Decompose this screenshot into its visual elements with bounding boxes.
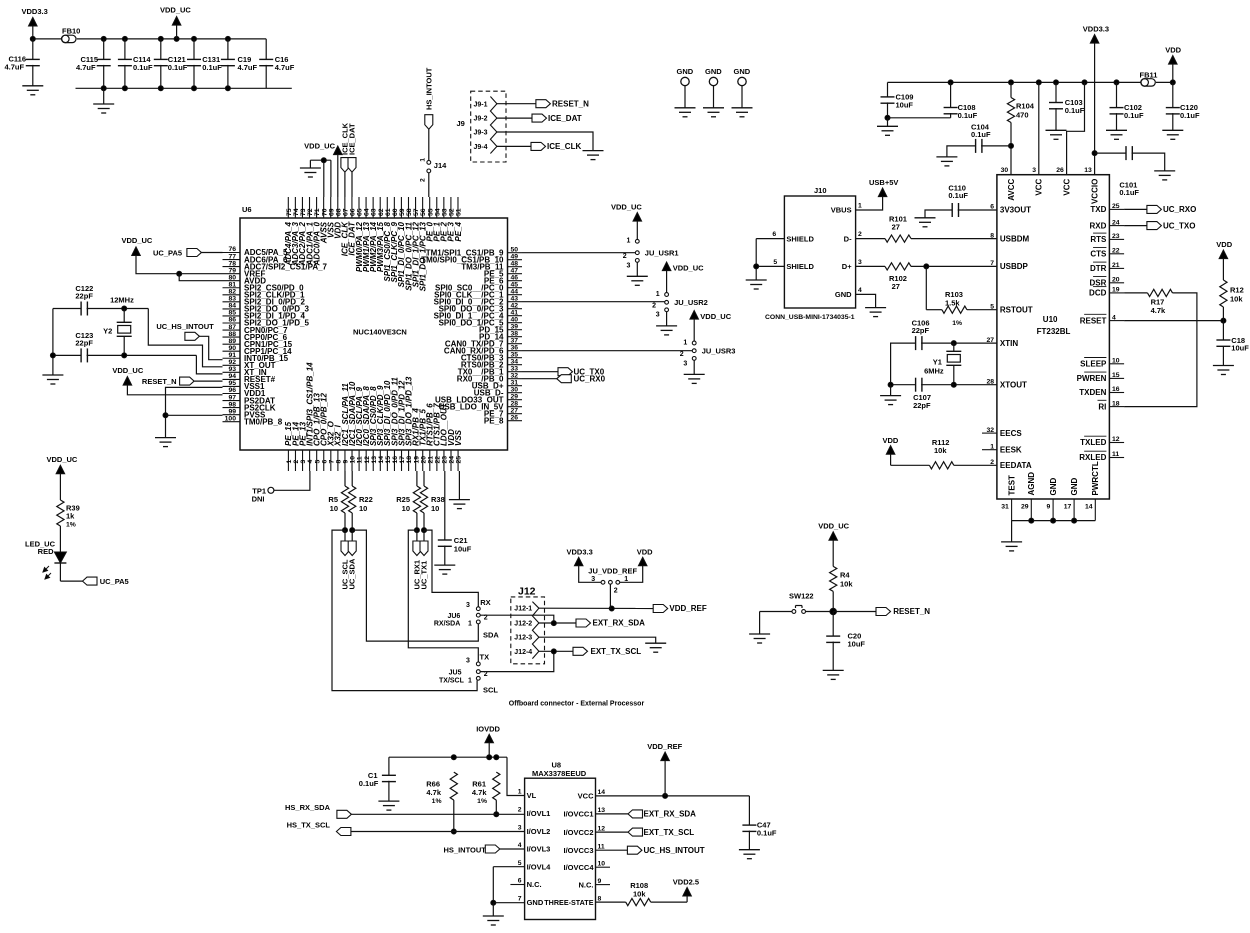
ground at J9-3 [583,151,604,160]
net tag UC_RX0 [557,374,606,383]
U8 pin 13 I/OVCC1 [563,807,605,819]
svg-text:10k: 10k [840,580,853,589]
svg-text:3: 3 [683,360,687,367]
svg-text:27: 27 [511,407,519,414]
J10 pin6 SHIELD [756,231,814,243]
svg-text:8: 8 [598,895,602,902]
U10 pin 23 RTS [1090,233,1124,244]
svg-text:HS_RX_SDA: HS_RX_SDA [285,803,331,812]
U10 pin 16 TXDEN [1079,386,1124,397]
wire J9-4 to ICE_CLK [497,145,531,147]
U6 pin 84 SPI2_DO_0/PD_3 [223,303,310,314]
svg-text:U10: U10 [1043,315,1058,324]
svg-text:19: 19 [413,456,420,464]
svg-text:TXD: TXD [1090,205,1106,214]
net tag UC_RXO [1124,205,1196,214]
power flag VDD2.5 [673,878,699,903]
wire SCL route (R5 to JU5 pin1) [332,530,477,691]
svg-text:J9-2: J9-2 [474,116,488,123]
svg-text:42: 42 [511,302,519,309]
connector J12 dashed box [511,586,545,664]
svg-text:9: 9 [598,878,602,885]
svg-text:1: 1 [990,443,994,450]
svg-text:10uF: 10uF [454,545,472,554]
wire U8 /OVL4 to ground [491,867,525,906]
svg-text:14: 14 [1085,504,1093,511]
U6 pin 5 CPO_1/PB_13 [312,393,321,471]
net tag HS_RX_SDA [285,803,525,818]
crystal Y1 6MHz [924,341,997,387]
svg-text:72: 72 [307,208,314,216]
svg-text:55: 55 [427,208,434,216]
U6 pin 88 CPP0/PC_6 [223,331,288,342]
U6 pin 45 SPI0_SC0__/PC_0 [435,281,522,292]
U6 pin 85 SPI2_DI_1/PD_4 [223,310,306,321]
svg-text:0.1uF: 0.1uF [1124,111,1144,120]
svg-text:22pF: 22pF [912,326,930,335]
U10 pin 4 RESET [1080,314,1124,325]
U6 pin 6 CPO_0/PB_12 [320,393,329,471]
svg-text:40: 40 [511,316,519,323]
wire VDD_UC to VREF/AVDD [136,256,223,281]
U6 pin 70 AVSS [319,197,328,244]
svg-text:UC_TXO: UC_TXO [1163,221,1195,230]
node label SCL [483,686,498,695]
svg-text:VCCIO: VCCIO [1090,179,1099,204]
svg-text:13: 13 [1084,167,1092,174]
U6 pin 68 VDD [334,197,343,239]
net tag EXT_TX_SCL (J12) [573,647,641,656]
resistor R25 10 [396,471,420,530]
net tag EXT_RX_SDA (J12) [576,619,645,628]
U6 pin 49 TM0/SPI0_CS1/PB_10 [421,253,522,264]
resistor R5 10 [328,471,348,530]
svg-text:RESET_N: RESET_N [552,99,589,108]
U6 pin 86 SPI2_DO_1/PD_5 [223,317,310,328]
U6 pin 43 SPI0_DI_0__/PC_2 [434,295,522,306]
U10 pin 29 AGND [1021,472,1036,521]
svg-text:VCC: VCC [1062,178,1071,195]
svg-text:TEST: TEST [1007,475,1016,496]
ground under C18 [1213,366,1234,375]
resistor R38 10 [420,471,444,530]
svg-text:36: 36 [511,344,519,351]
jumper JU_USR3 [680,339,736,367]
U6 pin 22 CTS1/PB_7 [433,403,442,471]
svg-text:GND: GND [705,67,722,76]
svg-text:21: 21 [1112,262,1120,269]
svg-text:PE_4: PE_4 [454,221,463,241]
connector J12 pin zigzag [532,602,539,659]
svg-text:R22: R22 [359,495,373,504]
wire xtal left leg [50,309,55,376]
ground at U6 AVSS/VSS [300,168,321,177]
net tag RESET_N (U6 pin 94) [142,377,223,386]
net tag UC_SCL (vertical) [341,530,350,589]
svg-text:29: 29 [511,393,519,400]
svg-text:1%: 1% [432,798,442,805]
U6 pin 35 CTS0/PB_3 [461,351,522,362]
ground at Y1 [880,396,901,405]
U6 pin 96 VDD1 [223,387,266,398]
net tag UC_HS_INTOUT (U8) [596,846,705,855]
resistor R102 27 [885,263,997,291]
svg-text:PE_8: PE_8 [484,416,504,425]
svg-text:JU_USR2: JU_USR2 [674,298,708,307]
U6 pin 11 I2C0_SCL/PA_9 [355,386,364,471]
svg-text:18: 18 [1112,400,1120,407]
svg-text:63: 63 [371,208,378,216]
svg-text:29: 29 [1021,504,1029,511]
ground under C20 [823,670,844,679]
svg-text:VCC: VCC [1035,178,1044,195]
svg-text:0.1uF: 0.1uF [958,111,978,120]
svg-text:RTS: RTS [1090,235,1107,244]
svg-text:99: 99 [228,408,236,415]
svg-text:45: 45 [511,281,519,288]
svg-text:87: 87 [228,324,236,331]
net tag ICE_CLK (J9) [531,142,581,151]
svg-text:VDD_UC: VDD_UC [47,455,78,464]
svg-text:78: 78 [228,260,236,267]
svg-text:VDD: VDD [637,548,653,557]
svg-text:6: 6 [772,231,776,238]
wire J12-4 to EXT_TX_SCL [539,649,573,654]
junction dots on top rail [101,36,230,41]
J10 pin3 D+ [842,259,885,271]
net tag EXT_TX_SCL (U8) [596,828,695,837]
wire top rail caps bank [77,38,266,40]
capacitor C121 0.1uF [154,39,188,88]
svg-text:VDD_UC: VDD_UC [700,312,731,321]
svg-text:J12-3: J12-3 [514,635,532,642]
svg-text:74: 74 [293,208,300,216]
svg-text:0.1uF: 0.1uF [1065,106,1085,115]
svg-text:FB11: FB11 [1140,71,1158,80]
wire VCC top rail [888,80,1141,85]
U6 pin 58 SPI1_DO_0/PC_11 [404,197,413,291]
svg-text:2: 2 [614,588,618,595]
svg-text:75: 75 [286,208,293,216]
U8 pin 7 GND [518,896,544,908]
svg-text:2: 2 [680,351,684,358]
svg-text:27: 27 [892,223,900,232]
svg-text:DNI: DNI [252,495,265,504]
U6 pin 41 SPI0_DI_1__/PC_4 [434,309,522,320]
svg-text:1: 1 [858,202,862,209]
svg-text:64: 64 [364,208,371,216]
resistor R103 1.5k [926,266,997,327]
node label TX [480,653,490,662]
U6 pin 91 INT0/PB_15 [223,352,289,363]
jumper JU_USR1 [623,238,679,270]
svg-text:7: 7 [990,260,994,267]
svg-text:3: 3 [518,824,522,831]
ground at C110 [915,218,936,227]
U10 pin 5 RSTOUT [990,303,1033,314]
svg-text:12: 12 [364,456,371,464]
U6 pin 89 CPN1/PC_15 [223,338,293,349]
U6 pin 90 CPP1/PC_14 [223,345,293,356]
svg-text:35: 35 [511,351,519,358]
svg-text:FT232BL: FT232BL [1037,327,1071,336]
svg-text:81: 81 [228,281,236,288]
ground under C116 [22,86,43,95]
svg-text:USBDP: USBDP [1000,262,1029,271]
svg-text:100: 100 [225,415,237,422]
wire U10 RESET to R12/C18 [1124,318,1226,323]
svg-text:4.7uF: 4.7uF [5,63,25,72]
svg-text:EXT_TX_SCL: EXT_TX_SCL [591,647,642,656]
power flag VDD (R112) [883,436,899,465]
svg-text:12: 12 [598,825,606,832]
svg-text:1: 1 [420,158,427,162]
svg-text:I/OVCC1: I/OVCC1 [563,810,593,819]
net tag UC_PA5 (U6 pin 76) [153,249,223,258]
svg-text:R4: R4 [840,571,850,580]
svg-text:66: 66 [350,208,357,216]
wire VDD3.3 rail to FB10 [30,36,61,41]
U6 pin 54 PE_1 [433,197,442,242]
U10 pin 21 DTR [1090,262,1124,273]
power flag VDD_UC (R4) [818,522,849,567]
svg-text:HS_INTOUT: HS_INTOUT [444,846,487,855]
svg-text:38: 38 [511,330,519,337]
svg-text:10: 10 [431,504,439,513]
svg-text:HS_INTOUT: HS_INTOUT [424,67,433,110]
svg-text:13: 13 [371,456,378,464]
svg-text:70: 70 [321,208,328,216]
svg-text:JU_VDD_REF: JU_VDD_REF [588,567,637,576]
svg-text:0.1uF: 0.1uF [168,63,188,72]
ground under C102 [1106,130,1127,139]
svg-text:26: 26 [1056,167,1064,174]
wire J10 shield to ground [754,239,759,280]
svg-text:1%: 1% [952,320,962,327]
svg-text:SDA: SDA [483,631,499,640]
svg-text:RXLED: RXLED [1079,453,1106,462]
svg-text:0.1uF: 0.1uF [1180,111,1200,120]
U6 pin 66 ICE_DAT [348,197,357,256]
svg-text:50: 50 [511,246,519,253]
svg-text:65: 65 [357,208,364,216]
svg-text:0.1uF: 0.1uF [359,779,379,788]
svg-text:46: 46 [511,274,519,281]
ground at J10 shield [746,280,767,289]
svg-text:4.7uF: 4.7uF [275,63,295,72]
svg-text:RESET_N: RESET_N [142,377,177,386]
svg-text:11: 11 [1112,451,1119,458]
U8 pin 12 I/OVCC2 [563,825,605,837]
U10 pin 20 DSR [1090,277,1125,288]
svg-text:57: 57 [413,208,420,216]
capacitor C108 0.1uF [888,82,978,120]
svg-text:31: 31 [1001,504,1009,511]
U10 pin 27 XTIN [986,337,1018,348]
svg-text:44: 44 [511,288,519,295]
svg-text:10: 10 [1112,358,1120,365]
svg-text:3V3OUT: 3V3OUT [1000,206,1031,215]
svg-text:VDD_UC: VDD_UC [304,142,335,151]
svg-text:95: 95 [228,380,236,387]
svg-text:5: 5 [518,860,522,867]
svg-text:86: 86 [228,317,236,324]
svg-text:EESK: EESK [1000,445,1022,454]
wire U10 ground rail [1012,518,1096,542]
ground at Y2 [42,375,63,384]
svg-text:DCD: DCD [1089,289,1107,298]
svg-text:VDD_REF: VDD_REF [669,604,706,613]
U6 pin 55 PE_0 [426,197,435,242]
capacitor C123 22pF [75,331,93,362]
svg-text:SHIELD: SHIELD [786,262,814,271]
U6 pin 23 LDO__OUT [440,402,449,471]
power flag VDD (top right) [1165,46,1181,83]
svg-text:6MHz: 6MHz [924,367,944,376]
U8 pin 3 I/OVL2 [518,824,551,836]
U6 pin 13 SPI3_CS0/PD_8 [369,386,378,471]
svg-text:10: 10 [402,504,410,513]
wire JU_USR2 pin3 to ground [656,312,677,335]
resistor R4 10k [830,566,854,611]
svg-text:JU6: JU6 [447,613,460,620]
svg-text:J9-4: J9-4 [474,144,488,151]
ground at C104 [936,157,957,166]
U8 pin 5 I/OVL4 [518,860,551,872]
net tag ICE_DAT (U6 pin 66, vertical) [348,123,357,197]
svg-text:GND: GND [1070,478,1079,496]
resistor R108 10k [596,881,688,906]
ground under C103 [1046,130,1067,139]
U6 pin 51 PE_4 [454,197,463,242]
svg-text:96: 96 [228,387,236,394]
svg-text:14: 14 [598,789,606,796]
power flag VDD_UC (U6 VREF/AVDD) [122,236,153,256]
svg-text:22: 22 [434,456,441,464]
svg-text:0.1uF: 0.1uF [971,130,991,139]
U6 pin 20 TX1/PB_5 [419,409,428,471]
svg-text:80: 80 [228,274,236,281]
U6 pin 1 PE_15 [284,421,293,471]
U6 pin 29 USB_LDO33_OUT [435,393,522,404]
svg-text:51: 51 [456,208,463,216]
junction RESET_N node [830,608,876,636]
U6 pin 8 X32_I [334,424,343,471]
capacitor C106 22pF [891,319,954,387]
U10 pin 2 EEDATA [990,459,1032,470]
svg-text:10k: 10k [934,446,947,455]
U6 pin 76 ADC5/PA_5 [223,246,288,257]
U6 pin 67 ICE_CLK [341,197,350,256]
svg-text:VDD2.5: VDD2.5 [673,878,699,887]
ground under cap bank [93,88,114,113]
U6 pin 33 TX0__/PB_1 [458,365,522,376]
capacitor C115 4.7uF [76,39,111,88]
wire JU5 pin2 to J12-4 [480,651,554,671]
svg-text:U6: U6 [242,205,252,214]
GND test point 2 [703,67,724,117]
svg-text:THREE-STATE: THREE-STATE [544,898,593,907]
U6 pin 52 PE_3 [447,197,456,242]
wire FB11 to VDD [1156,80,1175,85]
svg-text:16: 16 [1112,386,1120,393]
U8 pin 1 VL [518,789,537,801]
svg-text:3: 3 [656,312,660,319]
svg-text:58: 58 [406,208,413,216]
svg-text:73: 73 [300,208,307,216]
U6 pin 18 SPI3_DO_1/PD_13 [404,376,413,471]
svg-text:3: 3 [466,602,470,609]
svg-text:3: 3 [858,259,862,266]
U8 pin 14 VCC [578,789,606,801]
svg-text:11: 11 [598,843,605,850]
svg-text:59: 59 [399,208,406,216]
U6 pin 39 PD_15 [479,323,522,334]
svg-text:88: 88 [228,331,236,338]
svg-text:GND: GND [1049,478,1058,496]
svg-text:61: 61 [385,208,392,216]
net tag HS_INTOUT (U8) [444,845,525,855]
power flag VDD_UC (JU_USR1) [611,203,642,240]
svg-text:10: 10 [350,456,357,464]
power flag VDD_REF (U8) [647,742,682,796]
svg-text:3: 3 [300,460,307,464]
ground under C21 [434,565,455,574]
svg-text:CONN_USB-MINI-1734035-1: CONN_USB-MINI-1734035-1 [765,314,855,321]
capacitor C101 0.1uF [1092,146,1165,197]
svg-text:VDD: VDD [1216,240,1232,249]
resistor R104 470 [1007,82,1034,174]
U10 pin 12 TXLED [1080,436,1124,447]
svg-text:VDD: VDD [1165,46,1181,55]
svg-text:RXD: RXD [1090,221,1107,230]
net tag UC_TX0 [558,367,605,376]
svg-text:71: 71 [314,208,321,216]
svg-text:30: 30 [511,386,519,393]
ground under C120 [1162,130,1183,139]
capacitor C109 10uF [881,82,914,126]
U6 pin 82 SPI2_CLK/PD_1 [223,289,306,300]
net tag EXT_RX_SDA (U8) [596,810,697,819]
svg-text:RSTOUT: RSTOUT [1000,305,1033,314]
U10 pin 9 GND [1047,478,1058,521]
svg-text:GND: GND [677,67,694,76]
U6 pin 9 I2C1_SCL/PA_11 [341,383,350,471]
U6 pin 53 PE_2 [440,197,449,242]
svg-text:VDD_UC: VDD_UC [818,522,849,531]
capacitor C110 0.1uF [925,184,997,218]
svg-text:98: 98 [228,401,236,408]
svg-text:10uF: 10uF [848,640,866,649]
U6 pin 27 PE_7 [484,407,522,418]
svg-text:D-: D- [844,234,852,243]
svg-text:ICE_CLK: ICE_CLK [547,142,581,151]
IC U6 NUC140VE3CN body [240,205,508,450]
svg-text:JU5: JU5 [449,670,462,677]
U6 pin 81 SPI2_CS0/PD_0 [223,281,305,292]
U10 pin 32 EECS [982,427,1022,438]
svg-text:15: 15 [1112,372,1120,379]
power flag VDD3.3 (U10) [1083,25,1109,175]
svg-text:16: 16 [392,456,399,464]
svg-text:RI: RI [1098,402,1106,411]
svg-text:4.7uF: 4.7uF [76,63,96,72]
capacitor C47 0.1uF [742,796,777,850]
U6 pin 28 USB_LDO_IN_5V [439,400,522,411]
ground at J12-3 [645,643,666,652]
power flag VDD_UC (U6 VDD1) [112,366,222,395]
U6 pin 65 PWM0/PA_12 [355,197,364,272]
